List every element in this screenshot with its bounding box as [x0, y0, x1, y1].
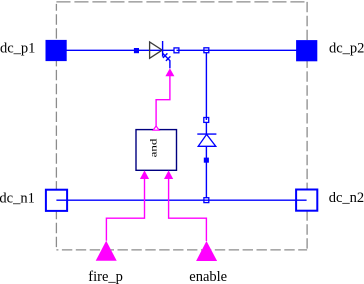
- node thyristor.p (filled square): [134, 48, 139, 53]
- svg-text:fire_p: fire_p: [88, 269, 123, 284]
- thyristor T1 cathode bar: [162, 41, 164, 57]
- and output port (hollow triangle): [153, 126, 159, 130]
- wire diode.n through diode to dc_n junction: [205, 122, 207, 197]
- node junction at diode top branch (open square, wire passes through): [204, 48, 209, 53]
- and gate A1 box: [136, 130, 177, 171]
- thyristor T1 triangle: [150, 42, 163, 58]
- wire dc_n1 to dc_n2: [56, 199, 306, 201]
- thyristor T1 gate tick 2: [166, 56, 171, 61]
- wire branch from top junction down to diode.n: [205, 53, 207, 120]
- wire dc_p1 to thyristor: [56, 49, 174, 51]
- node thyristor.n (open square): [174, 48, 179, 53]
- pin dc_p2 (filled square): [296, 40, 317, 61]
- svg-text:dc_p2: dc_p2: [329, 40, 364, 56]
- diode D1 cathode bar: [197, 133, 216, 135]
- diode D1 triangle: [198, 134, 216, 146]
- svg-text:enable: enable: [189, 269, 227, 284]
- arrow at thyristor gate: [165, 68, 174, 76]
- signal wire fire_p to and input 1: [106, 179, 144, 241]
- signal wire and output to thyristor gate: [156, 76, 170, 126]
- svg-text:dc_n2: dc_n2: [329, 190, 364, 206]
- node junction at dc_n wire (open square): [204, 198, 209, 203]
- wire thyristor.n to dc_p2: [177, 49, 307, 51]
- pin dc_n2 (open square): [296, 190, 317, 211]
- node diode.p (filled square): [204, 158, 209, 163]
- connector fire_p (filled triangle): [96, 241, 117, 261]
- pin dc_n1 (open square): [46, 190, 67, 211]
- thyristor T1 gate tick 1: [163, 53, 168, 58]
- signal wire enable to and input 2: [169, 179, 207, 241]
- arrow at and input 1: [140, 170, 149, 179]
- component boundary dashed border right edge: [306, 2, 308, 250]
- component boundary dashed border bottom edge: [56, 249, 307, 251]
- svg-text:dc_p1: dc_p1: [0, 40, 35, 56]
- component boundary dashed border left edge: [55, 4, 57, 250]
- thyristor T1 gate lead: [163, 53, 170, 68]
- arrow at and input 2: [164, 170, 173, 179]
- node diode.n (open square on vertical branch): [204, 118, 209, 123]
- component boundary dashed border top edge: [56, 1, 307, 3]
- pin dc_p1 (filled square): [46, 40, 67, 61]
- svg-text:dc_n1: dc_n1: [0, 190, 35, 206]
- svg-text:and: and: [149, 138, 159, 157]
- connector enable (filled triangle): [196, 241, 217, 261]
